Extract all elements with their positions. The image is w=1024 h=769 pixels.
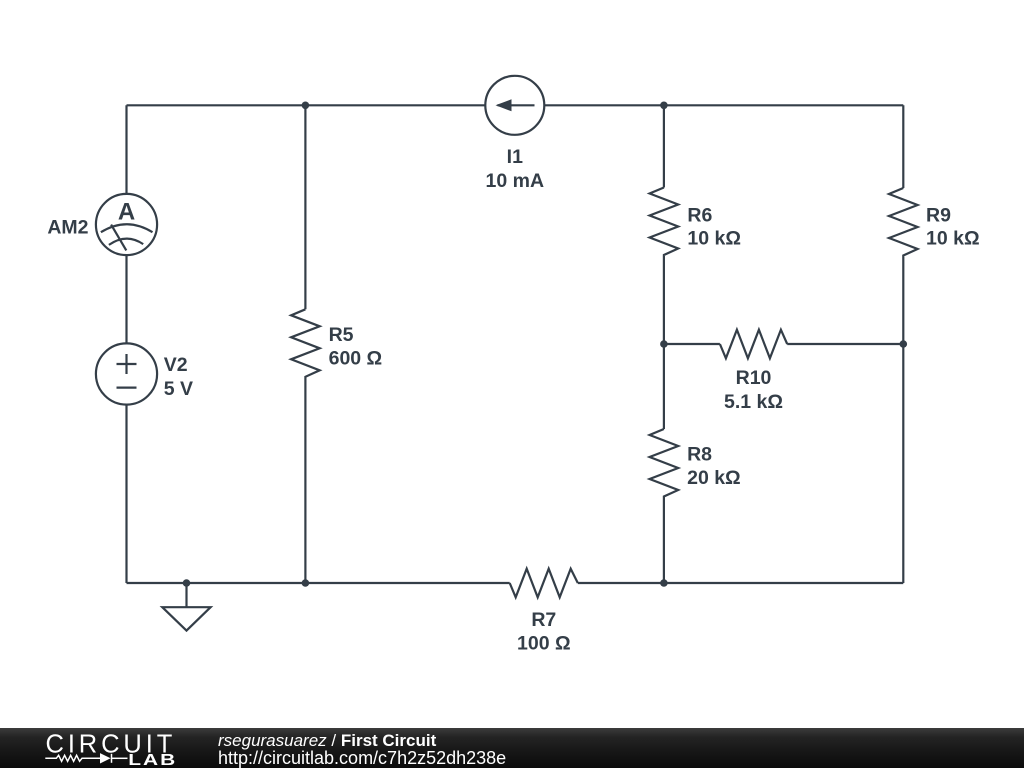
resistor R6: [650, 188, 679, 258]
wire bottom rail left: [127, 582, 510, 584]
ground: [162, 583, 210, 631]
junction node R6 R10: [660, 340, 668, 348]
svg-text:20 kΩ: 20 kΩ: [687, 467, 741, 489]
wire R10 left: [664, 343, 720, 345]
wire left rail upper: [125, 105, 127, 194]
wire left rail middle: [125, 255, 127, 344]
footer title text: [218, 731, 436, 751]
svg-text:10 kΩ: 10 kΩ: [687, 228, 741, 250]
wire R10 right: [787, 343, 903, 345]
wire right rail lower: [902, 344, 904, 583]
svg-text:AM2: AM2: [47, 217, 88, 239]
svg-text:5 V: 5 V: [164, 378, 193, 400]
current source I1: [485, 76, 544, 135]
svg-text:600 Ω: 600 Ω: [329, 347, 383, 369]
wire R5 branch bottom: [304, 379, 306, 583]
junction node ground: [183, 579, 191, 587]
footer url text: [218, 748, 506, 769]
resistor R7: [510, 569, 578, 598]
wire R6 branch bottom: [663, 258, 665, 345]
svg-text:R6: R6: [687, 205, 712, 227]
svg-text:10 kΩ: 10 kΩ: [926, 228, 980, 250]
resistor R8: [650, 429, 679, 499]
wire right rail middle: [902, 258, 904, 344]
svg-text:LAB: LAB: [128, 750, 177, 768]
svg-text:I1: I1: [507, 146, 523, 168]
junction node bottom R5: [302, 579, 310, 587]
svg-text:R7: R7: [531, 609, 556, 631]
svg-text:V2: V2: [164, 354, 188, 376]
wire top rail right: [544, 104, 903, 106]
voltage source V2: [96, 343, 157, 404]
wire top rail left: [127, 104, 486, 106]
junction node top R5: [302, 102, 310, 110]
svg-text:100 Ω: 100 Ω: [517, 632, 571, 654]
svg-text:R8: R8: [687, 444, 712, 466]
svg-text:R9: R9: [926, 205, 951, 227]
wire R5 branch top: [304, 105, 306, 309]
resistor R9: [889, 188, 918, 258]
resistor R5: [291, 309, 320, 379]
wire R6 branch top: [663, 105, 665, 187]
svg-text:R10: R10: [736, 367, 772, 389]
wire R8 branch bottom: [663, 499, 665, 583]
wire right rail upper: [902, 105, 904, 188]
junction node top R6: [660, 102, 668, 110]
CircuitLab logo: [0, 728, 190, 768]
svg-text:5.1 kΩ: 5.1 kΩ: [724, 391, 783, 413]
wire left rail lower: [125, 405, 127, 584]
ammeter AM2: [96, 194, 157, 255]
junction node bottom R8: [660, 579, 668, 587]
resistor R10: [720, 330, 787, 359]
junction node R10 right: [900, 340, 908, 348]
svg-text:A: A: [118, 198, 135, 225]
svg-text:10 mA: 10 mA: [486, 170, 545, 192]
wire R8 branch top: [663, 344, 665, 429]
svg-text:R5: R5: [329, 324, 354, 346]
wire bottom rail right: [578, 582, 904, 584]
